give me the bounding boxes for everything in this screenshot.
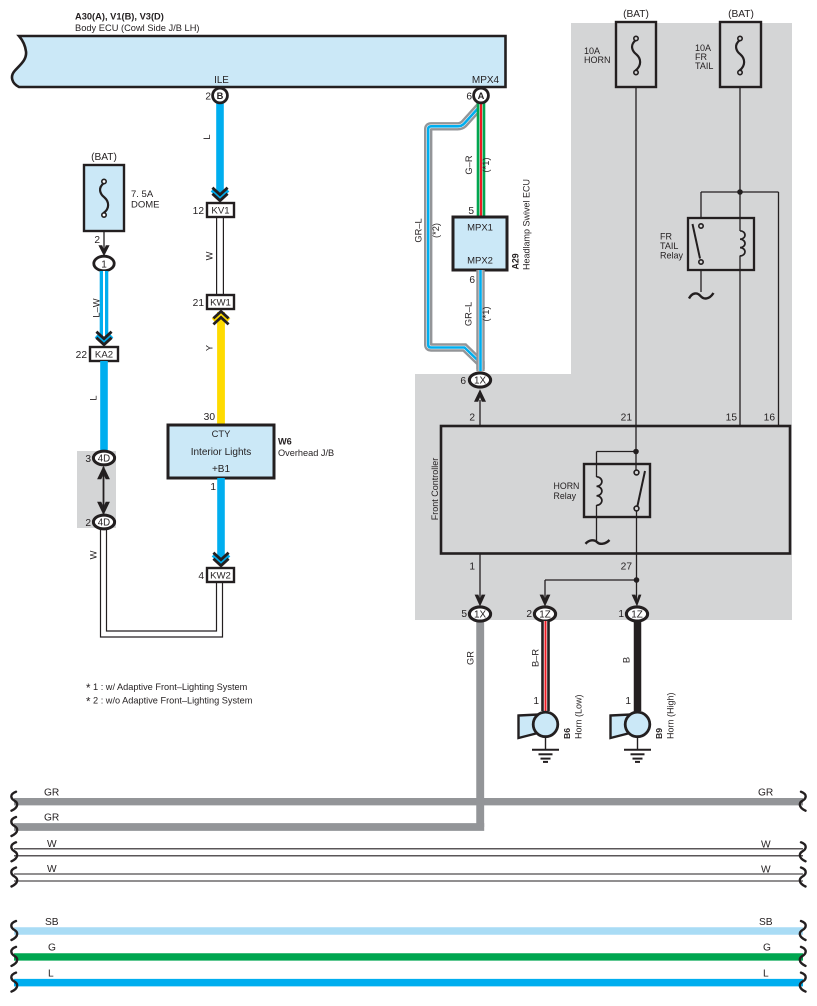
svg-text:L: L xyxy=(48,969,54,980)
svg-text:W: W xyxy=(89,550,99,559)
svg-text:G: G xyxy=(48,943,56,954)
svg-text:G–R: G–R xyxy=(464,155,474,174)
svg-text:KW2: KW2 xyxy=(210,571,231,582)
svg-text:W: W xyxy=(761,840,771,851)
svg-text:B9: B9 xyxy=(654,728,664,739)
svg-text:MPX2: MPX2 xyxy=(467,256,493,267)
svg-text:KV1: KV1 xyxy=(211,206,229,217)
svg-text:KA2: KA2 xyxy=(95,350,113,361)
svg-text:GR–L: GR–L xyxy=(414,218,424,242)
svg-text:DOME: DOME xyxy=(131,200,160,211)
svg-text:(BAT): (BAT) xyxy=(728,9,754,20)
svg-text:4: 4 xyxy=(198,571,204,582)
svg-text:B: B xyxy=(217,91,224,101)
svg-text:6: 6 xyxy=(469,275,475,286)
svg-text:ILE: ILE xyxy=(214,75,229,86)
svg-text:5: 5 xyxy=(468,206,474,217)
svg-text:W: W xyxy=(47,839,57,850)
svg-text:B: B xyxy=(622,657,632,663)
svg-text:Body ECU (Cowl Side J/B LH): Body ECU (Cowl Side J/B LH) xyxy=(75,23,200,33)
svg-text:Relay: Relay xyxy=(660,251,684,261)
svg-text:* 1 : w/ Adaptive Front–Lighti: * 1 : w/ Adaptive Front–Lighting System xyxy=(86,682,248,695)
svg-text:2: 2 xyxy=(205,92,211,103)
svg-text:Relay: Relay xyxy=(554,491,577,501)
svg-text:SB: SB xyxy=(45,917,59,928)
svg-text:TAIL: TAIL xyxy=(695,61,713,71)
svg-text:+B1: +B1 xyxy=(212,464,231,475)
svg-text:(BAT): (BAT) xyxy=(623,9,649,20)
svg-text:MPX4: MPX4 xyxy=(472,75,500,86)
svg-text:(*1): (*1) xyxy=(481,158,491,173)
svg-text:W6: W6 xyxy=(278,437,292,447)
svg-text:2: 2 xyxy=(94,235,100,246)
svg-text:22: 22 xyxy=(76,350,88,361)
svg-text:1: 1 xyxy=(533,696,539,707)
svg-text:(*1): (*1) xyxy=(481,307,491,322)
svg-text:(BAT): (BAT) xyxy=(91,152,117,163)
svg-text:Overhead J/B: Overhead J/B xyxy=(278,448,334,458)
svg-text:27: 27 xyxy=(621,562,633,573)
svg-text:30: 30 xyxy=(204,412,216,423)
svg-text:Horn (High): Horn (High) xyxy=(665,692,675,739)
svg-text:A30(A), V1(B), V3(D): A30(A), V1(B), V3(D) xyxy=(75,12,164,22)
svg-text:HORN: HORN xyxy=(554,481,580,491)
svg-text:21: 21 xyxy=(193,298,205,309)
svg-text:1: 1 xyxy=(101,260,107,271)
svg-text:2: 2 xyxy=(85,518,91,529)
svg-text:12: 12 xyxy=(193,206,205,217)
svg-text:GR–L: GR–L xyxy=(464,302,474,326)
svg-text:HORN: HORN xyxy=(584,55,611,65)
svg-text:Headlamp Swivel ECU: Headlamp Swivel ECU xyxy=(521,179,531,270)
svg-text:KW1: KW1 xyxy=(210,298,231,309)
svg-text:4D: 4D xyxy=(98,454,110,465)
svg-text:15: 15 xyxy=(726,413,738,424)
svg-text:(*2): (*2) xyxy=(431,223,441,238)
svg-text:6: 6 xyxy=(466,92,472,103)
svg-text:6: 6 xyxy=(460,376,466,387)
svg-text:W: W xyxy=(205,251,215,260)
svg-text:GR: GR xyxy=(44,788,59,799)
svg-text:W: W xyxy=(47,864,57,875)
svg-text:1: 1 xyxy=(469,562,475,573)
svg-text:1X: 1X xyxy=(474,610,486,621)
svg-text:A: A xyxy=(478,91,485,101)
svg-text:1Z: 1Z xyxy=(631,610,643,621)
svg-text:MPX1: MPX1 xyxy=(467,223,493,234)
svg-text:2: 2 xyxy=(469,413,475,424)
svg-text:L: L xyxy=(763,969,769,980)
svg-text:GR: GR xyxy=(758,788,773,799)
svg-text:L–W: L–W xyxy=(91,298,101,317)
svg-text:7. 5A: 7. 5A xyxy=(131,189,154,200)
svg-text:1Z: 1Z xyxy=(539,610,551,621)
svg-text:TAIL: TAIL xyxy=(660,241,678,251)
svg-text:FR: FR xyxy=(660,232,672,242)
svg-text:G: G xyxy=(763,943,771,954)
svg-text:1: 1 xyxy=(618,609,624,620)
svg-text:SB: SB xyxy=(759,917,773,928)
svg-text:B6: B6 xyxy=(562,728,572,739)
svg-text:W: W xyxy=(761,865,771,876)
svg-text:Horn (Low): Horn (Low) xyxy=(573,694,583,739)
svg-text:1: 1 xyxy=(210,482,216,493)
svg-text:4D: 4D xyxy=(98,518,110,529)
svg-text:L: L xyxy=(202,134,212,139)
svg-text:GR: GR xyxy=(466,651,476,665)
svg-text:* 2 : w/o Adaptive Front–Light: * 2 : w/o Adaptive Front–Lighting System xyxy=(86,696,253,709)
svg-text:B–R: B–R xyxy=(531,649,541,667)
svg-text:Front Controller: Front Controller xyxy=(430,458,440,521)
svg-text:3: 3 xyxy=(85,454,91,465)
svg-text:Y: Y xyxy=(205,345,215,351)
svg-text:A29: A29 xyxy=(511,253,521,269)
svg-text:CTY: CTY xyxy=(212,428,231,439)
svg-text:21: 21 xyxy=(621,413,633,424)
svg-text:1X: 1X xyxy=(474,376,486,387)
svg-text:16: 16 xyxy=(764,413,776,424)
svg-text:GR: GR xyxy=(44,813,59,824)
svg-text:5: 5 xyxy=(461,609,467,620)
svg-text:2: 2 xyxy=(526,609,532,620)
svg-text:Interior Lights: Interior Lights xyxy=(191,447,252,458)
svg-text:1: 1 xyxy=(625,696,631,707)
svg-text:L: L xyxy=(89,395,99,400)
